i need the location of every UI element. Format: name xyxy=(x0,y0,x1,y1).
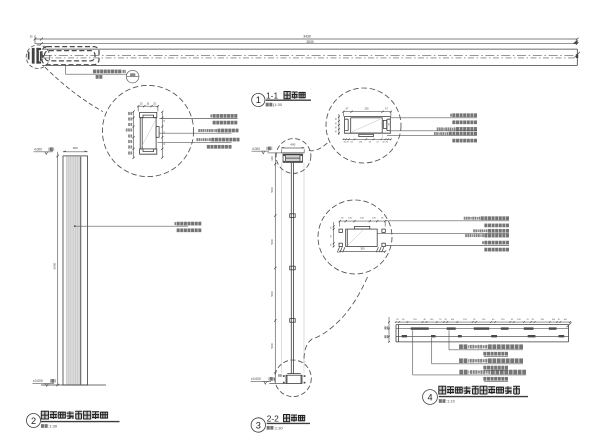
right channel with tube xyxy=(387,117,390,133)
svg-text:500: 500 xyxy=(270,291,274,296)
svg-text:6000: 6000 xyxy=(52,262,56,269)
glass edge lines xyxy=(281,163,283,373)
svg-text:2: 2 xyxy=(31,416,36,426)
bottom dim xyxy=(343,138,391,140)
top assembly: plan view of decorative screen xyxy=(26,35,580,83)
svg-text:3: 3 xyxy=(256,420,261,430)
svg-text::1:30: :1:30 xyxy=(274,425,284,430)
svg-text:3430: 3430 xyxy=(303,35,311,39)
svg-text:1-1: 1-1 xyxy=(266,90,278,100)
svg-text::1:30: :1:30 xyxy=(48,424,58,429)
dim line above xyxy=(340,220,386,222)
end post section xyxy=(32,48,35,64)
svg-text:4.000: 4.000 xyxy=(34,148,42,152)
detail bubble bottom xyxy=(275,360,312,397)
svg-text:(1:30: (1:30 xyxy=(273,102,283,107)
svg-text:500: 500 xyxy=(270,239,274,244)
strip outline xyxy=(396,324,569,326)
title 4 : detail two xyxy=(423,386,528,404)
leaders xyxy=(448,330,450,350)
bottom dim 300 xyxy=(340,251,386,253)
dim line 67/200/67 xyxy=(343,111,391,113)
hidden member outer dashed box xyxy=(42,47,99,65)
left rotated dims xyxy=(333,222,335,247)
detail circle A (mullion profile) xyxy=(45,67,240,176)
hidden member inner dashed box xyxy=(45,51,96,61)
dim line xyxy=(396,321,570,323)
left elevation of screen xyxy=(33,146,202,386)
svg-text:500: 500 xyxy=(270,343,274,348)
detail 4 : plan detail strip xyxy=(384,317,571,381)
rail outline xyxy=(344,116,391,118)
note text 装饰屏风玻璃夹(具体详见) xyxy=(93,70,126,74)
svg-text:200: 200 xyxy=(365,108,370,111)
detail bubble top xyxy=(276,139,311,174)
2-2 section (middle) xyxy=(251,139,312,397)
svg-text:300: 300 xyxy=(360,246,365,250)
mullion top cap xyxy=(140,112,157,117)
leader to finish note xyxy=(74,225,76,227)
column face stripes xyxy=(66,157,81,385)
svg-text::1:10: :1:10 xyxy=(446,399,456,404)
dimension line 2830 xyxy=(35,43,578,45)
top dim 600 xyxy=(63,151,88,153)
column outline xyxy=(63,156,88,385)
svg-text:±0.000: ±0.000 xyxy=(33,379,43,383)
hanger rod xyxy=(290,163,292,374)
lower mullion blocks xyxy=(402,335,407,337)
profile top dim line xyxy=(138,105,158,107)
top tab xyxy=(355,226,370,229)
svg-text:600: 600 xyxy=(73,146,78,150)
svg-text:±0.000: ±0.000 xyxy=(251,377,261,381)
connecting curve to 2-2 top bubble xyxy=(309,142,329,151)
upper mullion blocks xyxy=(411,327,429,329)
ground line xyxy=(41,384,106,386)
svg-text:500: 500 xyxy=(270,187,274,192)
bottom tab xyxy=(359,134,374,136)
top cap xyxy=(281,152,304,154)
floor line xyxy=(269,383,286,385)
svg-text:400: 400 xyxy=(290,143,295,147)
centerline xyxy=(43,54,577,56)
mullion body xyxy=(140,118,156,149)
svg-text:1: 1 xyxy=(256,95,261,105)
keyed note circle xyxy=(126,70,139,83)
title 1 : 1-1 section xyxy=(252,90,311,107)
detail bubble on end post xyxy=(26,45,50,69)
leader lines and labels xyxy=(160,118,238,120)
vertical dim line xyxy=(57,152,59,385)
leader to glass-clamp note xyxy=(65,65,67,74)
vertical dim line xyxy=(274,153,276,383)
title 3 : 2-2 section xyxy=(251,413,310,432)
labels xyxy=(459,344,523,349)
section arrow xyxy=(42,54,45,59)
rod junctions xyxy=(290,214,296,218)
detail circle C (base plate section) xyxy=(304,200,509,363)
connecting dashed curve from end post bubble xyxy=(45,67,103,111)
svg-text:4.000: 4.000 xyxy=(252,147,260,151)
right dim line xyxy=(161,112,163,158)
hidden glass line xyxy=(43,57,577,59)
body xyxy=(351,118,383,133)
dim 400 xyxy=(281,147,304,149)
svg-text:2-2: 2-2 xyxy=(267,413,279,423)
svg-text:100: 100 xyxy=(270,156,274,161)
hatch marks xyxy=(337,247,339,252)
connecting curve to 2-2 bottom bubble xyxy=(304,277,368,363)
leaders and labels xyxy=(391,117,477,119)
left channel xyxy=(345,117,349,133)
leaders and labels xyxy=(385,220,509,222)
svg-text:35: 35 xyxy=(30,35,33,39)
main plate body xyxy=(346,229,378,246)
side tube 40x20 xyxy=(156,127,159,138)
svg-text:2830: 2830 xyxy=(306,40,314,44)
dimension line 3430 xyxy=(35,38,578,40)
left rotated dim xyxy=(338,114,340,135)
anchor squares xyxy=(339,229,342,232)
bottom cap xyxy=(287,373,300,375)
svg-text:4: 4 xyxy=(427,393,432,403)
left rotated dims xyxy=(388,317,390,342)
screen top member outline xyxy=(42,48,577,50)
glass end clamp xyxy=(28,52,30,60)
title 2 : side elevation xyxy=(27,411,120,428)
mullion bottom cap xyxy=(140,149,157,154)
left rotated dims xyxy=(133,111,135,157)
detail circle B (top rail section) xyxy=(309,88,477,163)
